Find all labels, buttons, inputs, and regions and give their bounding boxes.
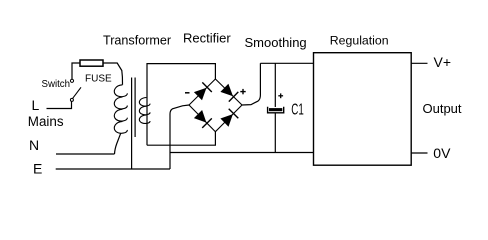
svg-text:N: N: [29, 137, 39, 153]
transformer TR1 secondary winding: [139, 98, 150, 124]
diode D3 (bottom-left, L to B): [194, 110, 207, 123]
capacitor C1 negative cup: [268, 107, 284, 113]
switch SW1 upper contact: [70, 79, 73, 82]
switch SW1 blade: [73, 87, 81, 98]
wire switch to fuse: [72, 63, 80, 79]
regulator block U1: [314, 53, 412, 166]
wire L live input: [47, 101, 72, 108]
wire core to earth: [131, 137, 133, 169]
wire fuse to transformer primary: [103, 63, 123, 85]
transformer TR1 primary winding: [114, 85, 127, 133]
wire E earth input: [56, 168, 170, 170]
wire positive rail to regulator: [260, 62, 313, 64]
diode D2 (top-right, T to R): [220, 84, 233, 97]
wire 0V rail: [170, 152, 314, 154]
wire secondary bottom to bridge AC2: [147, 132, 215, 146]
svg-text:L: L: [32, 97, 40, 113]
svg-text:Switch: Switch: [42, 79, 71, 90]
wire bridge negative to 0V rail: [170, 105, 189, 169]
wire primary bottom to N: [115, 133, 121, 154]
diode D4 (bottom-right, B to R): [220, 114, 233, 127]
svg-text:Rectifier: Rectifier: [183, 31, 231, 46]
label minus at bridge negative corner: [185, 92, 190, 94]
svg-text:Transformer: Transformer: [103, 33, 171, 47]
wire secondary top to bridge AC1: [147, 64, 215, 146]
svg-text:FUSE: FUSE: [85, 74, 112, 85]
wire 0V output: [411, 152, 427, 154]
wire capacitor bottom lead: [274, 114, 276, 153]
svg-text:Regulation: Regulation: [330, 34, 389, 48]
svg-text:E: E: [33, 161, 42, 177]
transformer TR1 core: [131, 78, 133, 138]
capacitor C1 positive plate: [269, 108, 282, 111]
svg-text:Mains: Mains: [28, 114, 64, 129]
label plus at bridge positive corner: [240, 91, 245, 93]
bridge rectifier diamond: [189, 79, 242, 132]
svg-text:Smoothing: Smoothing: [245, 35, 307, 50]
wire V+ output: [411, 62, 427, 64]
wire N neutral input: [56, 153, 115, 155]
wire bridge positive riser: [242, 63, 260, 105]
wire capacitor top lead: [274, 63, 276, 107]
switch SW1 lower contact: [70, 98, 73, 101]
svg-text:V+: V+: [434, 54, 452, 70]
svg-text:0V: 0V: [433, 145, 451, 161]
label plus at capacitor: [278, 95, 283, 97]
svg-text:Output: Output: [423, 101, 462, 116]
fuse FUSE body: [80, 60, 103, 66]
diode D1 (top-left, L to T): [194, 88, 207, 101]
svg-text:C1: C1: [291, 101, 304, 118]
